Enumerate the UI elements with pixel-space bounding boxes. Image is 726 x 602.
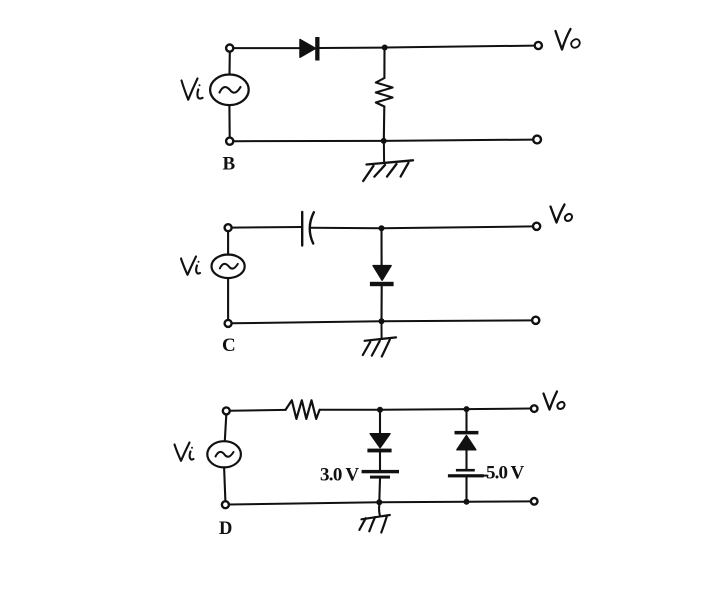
ground B stem [383, 144, 385, 163]
wire B source top lead [228, 52, 230, 75]
wire D top-left segment [230, 409, 286, 412]
ground D stem [378, 505, 381, 515]
terminal B bottom-right [533, 136, 541, 144]
node D junction 2 bottom [464, 499, 470, 505]
wire B resistor bottom stub [383, 107, 386, 142]
wire D branch2 top stub [465, 409, 467, 431]
wire B top-middle segment [320, 47, 385, 49]
terminal D top-right [531, 405, 538, 412]
label Vo (B) [556, 29, 571, 50]
wire B resistor top stub [383, 48, 385, 79]
svg-text:D: D [219, 519, 232, 539]
wire C top-left segment [232, 226, 302, 229]
ground C [365, 337, 396, 340]
diode D4 (pointing up) [455, 431, 479, 435]
svg-text:3.0 V: 3.0 V [320, 464, 359, 485]
node D junction 1 bottom [376, 499, 382, 505]
wire C diode bottom stub [380, 286, 382, 321]
ground C stem [381, 324, 383, 338]
wire D top-right segment [467, 408, 531, 411]
svg-text:C: C [222, 335, 236, 356]
wire D bottom [229, 501, 531, 504]
wire D branch1 mid stub [379, 452, 381, 470]
terminal C bottom-right [532, 317, 539, 324]
terminal D top-left [223, 407, 230, 414]
diode D2 (shunt, pointing down) [373, 266, 391, 281]
label Vi (B) [182, 79, 198, 100]
label Vi (D) [175, 443, 190, 461]
wire B source bottom lead [228, 105, 230, 137]
battery B2 5.0V [456, 469, 475, 472]
wire C top-right segment [382, 226, 534, 228]
AC source V1 (B) [210, 75, 249, 106]
battery B1 3.0V [362, 470, 399, 473]
node D junction 2 top [464, 406, 470, 412]
node D junction 1 top [377, 407, 383, 413]
wire D source bottom lead [224, 467, 225, 501]
wire C diode top stub [380, 228, 382, 265]
node C bottom junction [379, 318, 385, 324]
wire C bottom [232, 320, 532, 323]
wire D branch1 bottom stub [378, 479, 381, 503]
wire C top-middle segment [310, 227, 382, 230]
wire B bottom [233, 140, 533, 142]
diode D3 (pointing down) [370, 434, 390, 448]
node B bottom junction [381, 138, 387, 144]
svg-text:5.0 V: 5.0 V [486, 463, 525, 484]
diode D1 (series, pointing right) [300, 40, 316, 58]
terminal C top-right [533, 223, 540, 230]
resistor R1 [376, 78, 393, 107]
terminal B top-right [535, 42, 542, 49]
capacitor C1 [301, 212, 303, 246]
wire B top-left segment [233, 47, 300, 49]
node C top junction [379, 225, 385, 231]
terminal C top-left [225, 224, 232, 231]
wire C source bottom lead [227, 278, 229, 320]
AC source V1 (C) [212, 254, 245, 278]
label Vo (C) [551, 205, 565, 223]
terminal C bottom-left [225, 320, 232, 327]
wire D branch2 bottom stub [465, 477, 467, 501]
wire D top-middle segment 2 [380, 408, 467, 411]
wire B top-right segment [385, 46, 535, 48]
terminal D bottom-left [222, 501, 229, 508]
wire D branch1 top stub [379, 410, 381, 434]
resistor R2 (series) [286, 400, 320, 419]
node B top junction [382, 45, 388, 51]
ground B [367, 160, 414, 164]
label 5.0 V [484, 475, 488, 477]
ground D [362, 515, 390, 519]
wire D top-middle segment 1 [320, 409, 380, 411]
label Vi (C) [181, 257, 196, 275]
terminal B top-left [226, 45, 233, 52]
terminal B bottom-left [226, 138, 233, 145]
wire C source top lead [227, 231, 229, 255]
svg-text:B: B [223, 154, 236, 175]
wire D source top lead [225, 414, 227, 441]
terminal D bottom-right [531, 498, 538, 505]
label Vo (D) [544, 392, 558, 410]
wire D branch2 mid stub [465, 450, 467, 469]
AC source V1 (D) [207, 441, 241, 467]
